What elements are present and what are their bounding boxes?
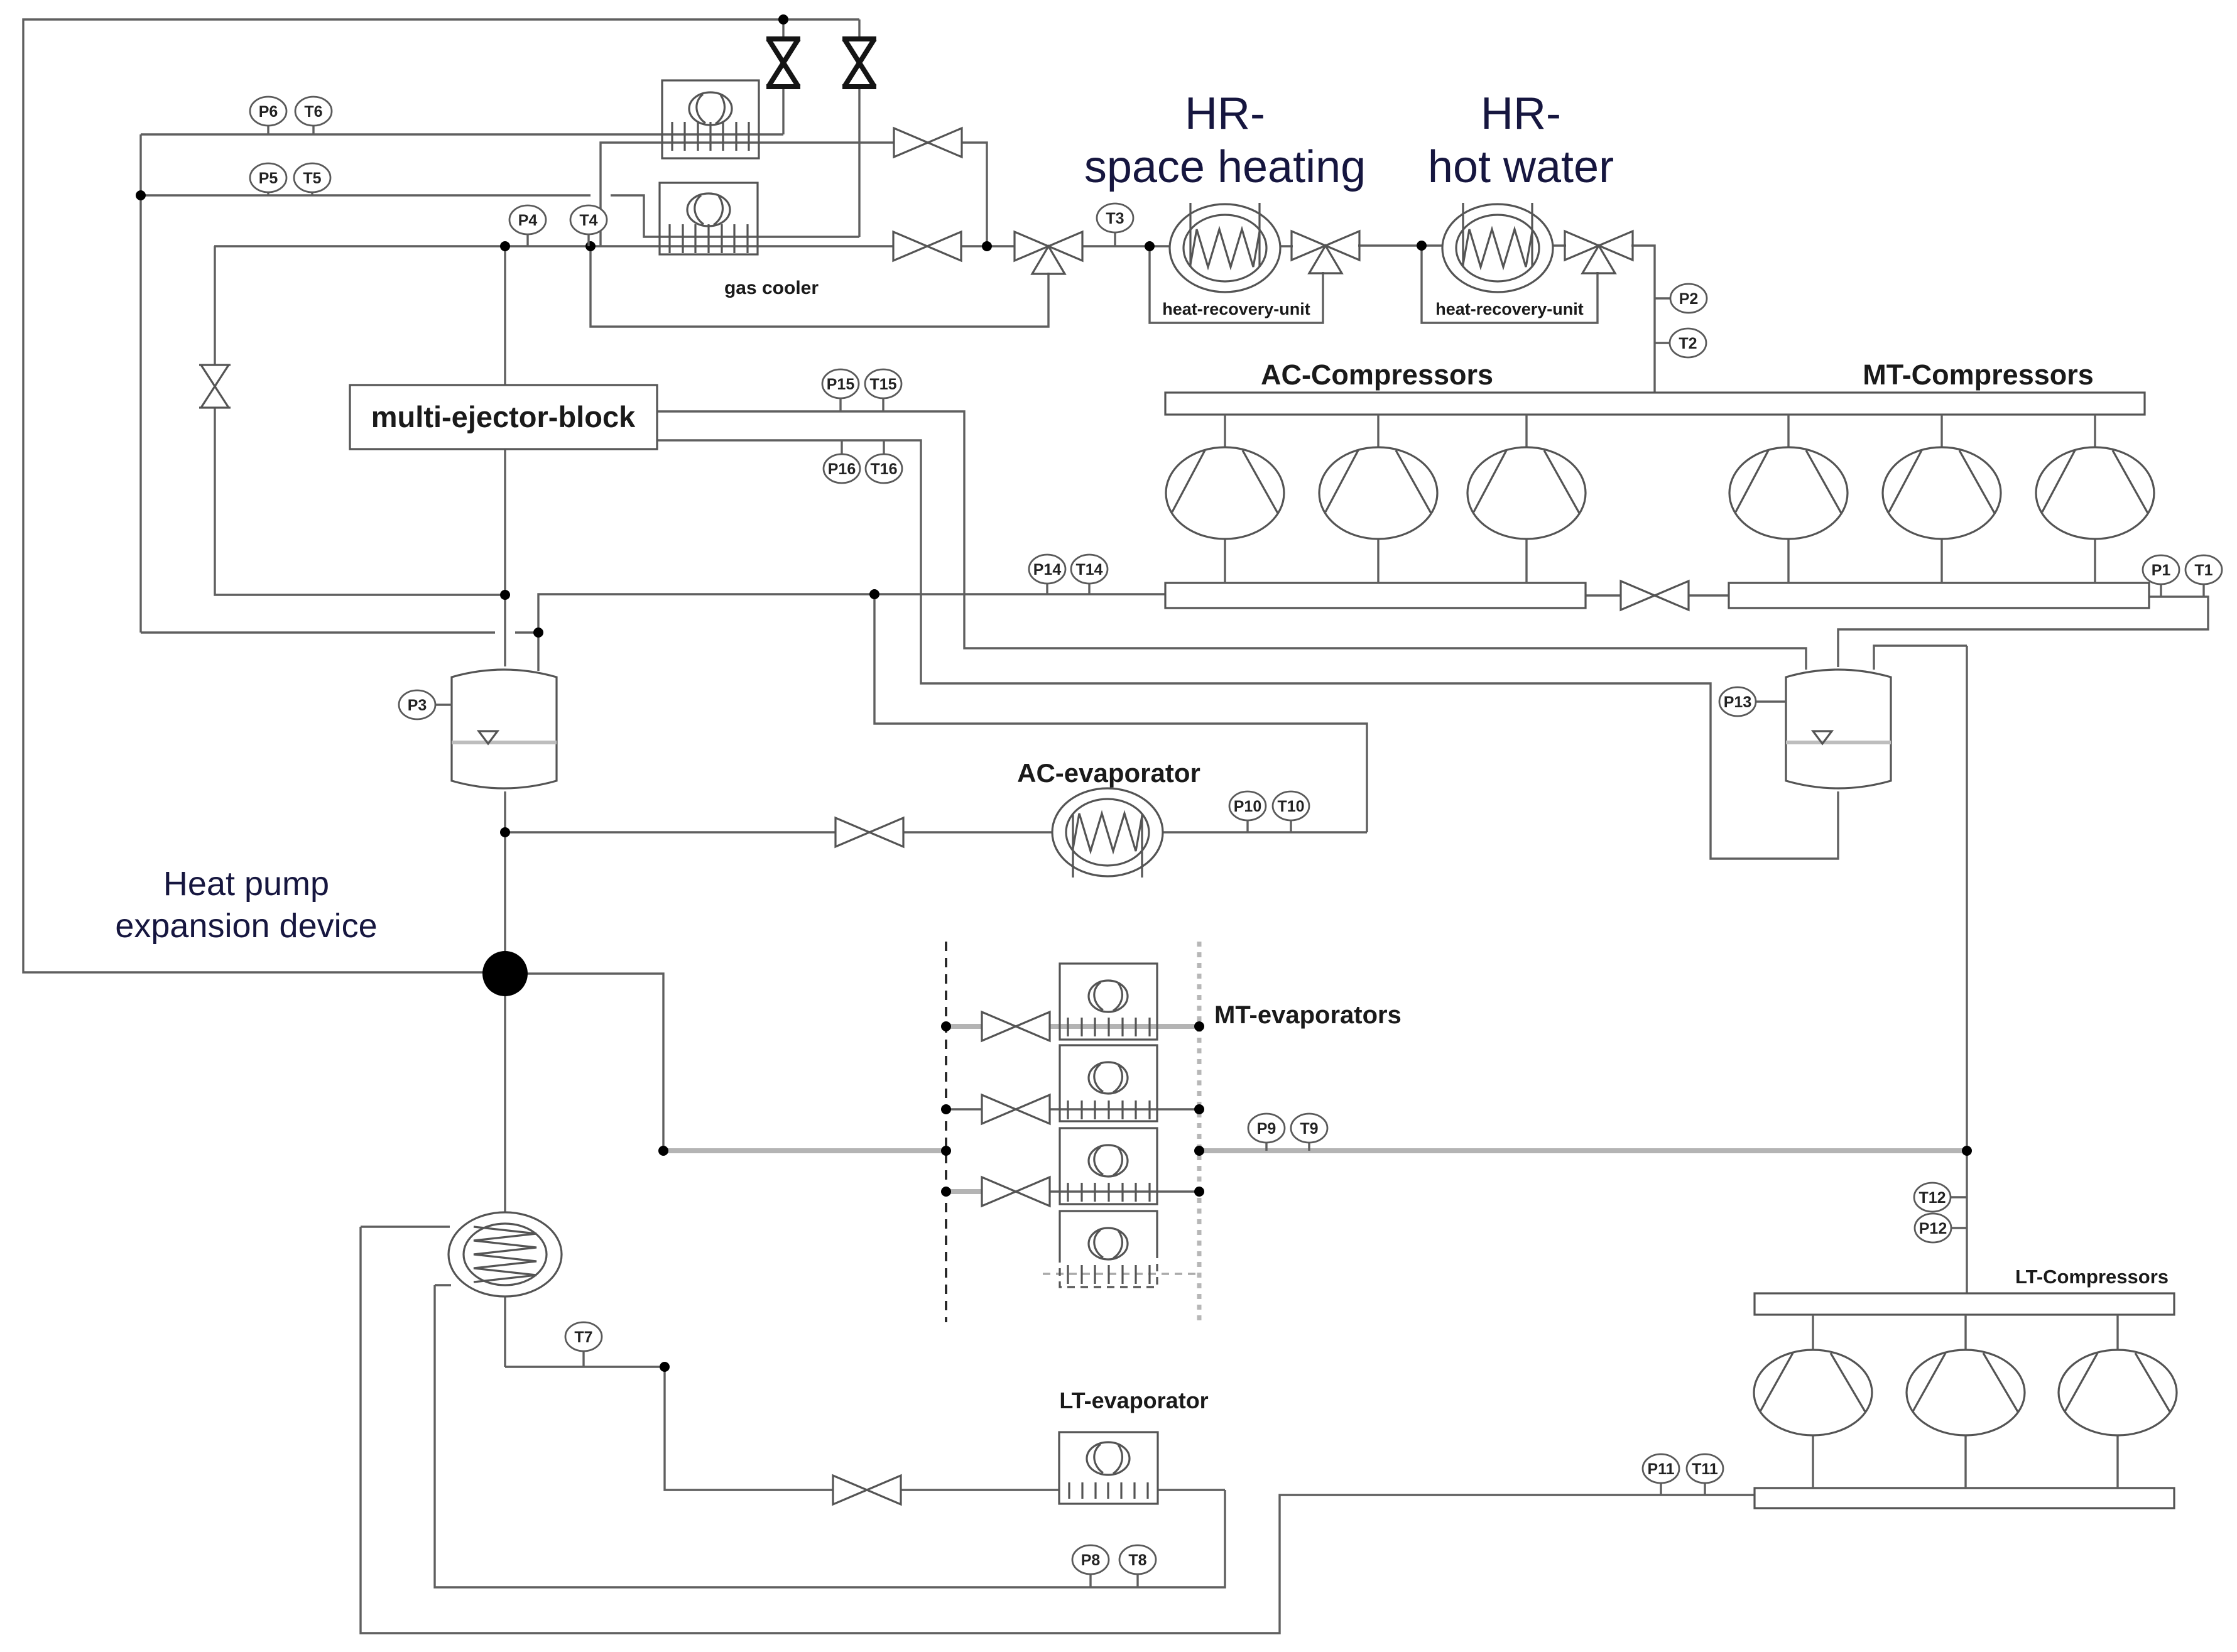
wire LT discharge / MT-evap suction vertical (T12/P12 line) — [1966, 646, 1968, 1293]
sensor T3 — [1097, 204, 1133, 246]
3-way valve 3 — [1565, 231, 1599, 260]
svg-text:P14: P14 — [1033, 561, 1062, 579]
wire MT-evap row4 dashed — [1043, 1273, 1199, 1274]
svg-text:T8: T8 — [1128, 1551, 1146, 1569]
svg-text:P11: P11 — [1647, 1460, 1674, 1478]
svg-text:P6: P6 — [259, 103, 278, 121]
LT compressor 3 — [2116, 1315, 2118, 1350]
junction dot (3131,1832) — [1962, 1146, 1972, 1156]
sensor T9 — [1291, 1114, 1327, 1151]
svg-text:T10: T10 — [1277, 798, 1304, 815]
wire ejector output 1 (P15/T15 line) to receiver2 top-left — [657, 411, 1806, 670]
junction dot (1571,392) — [982, 241, 992, 251]
wire 3way-3 to discharge header riser (P2/T2 line) — [1631, 246, 1655, 393]
svg-text:P2: P2 — [1679, 290, 1699, 308]
junction dot (1909,1832) — [1194, 1146, 1204, 1156]
wire HR1 loop — [1150, 246, 1323, 323]
AC compressor 1 — [1224, 415, 1226, 448]
svg-text:T14: T14 — [1075, 561, 1102, 579]
svg-text:hot water: hot water — [1428, 142, 1614, 192]
MT-evaporator box 1 — [1060, 964, 1157, 1040]
valve B (main line) — [893, 232, 927, 261]
svg-text:HR-: HR- — [1185, 89, 1265, 139]
wire main line valveB to 3way-1 — [961, 245, 1015, 247]
junction dot (224,311) — [136, 190, 146, 200]
MT compressor 2 — [1940, 415, 1942, 448]
MT compressor 1 — [1787, 415, 1789, 448]
sensor P13 — [1719, 687, 1786, 716]
3-way valve 1 — [1015, 232, 1048, 261]
wire MT-evap feed header (thick) — [663, 1148, 946, 1153]
valve top-2 (bold) — [842, 36, 876, 41]
valve A (gas cooler upper branch) — [894, 128, 928, 157]
sensor T6 — [295, 97, 332, 134]
svg-text:P4: P4 — [518, 212, 538, 229]
LT-evaporator feed valve — [833, 1475, 867, 1504]
wire expansion-valve branch — [214, 246, 215, 365]
MT-evaporator box 3 — [1060, 1128, 1157, 1204]
svg-text:AC-Compressors: AC-Compressors — [1261, 359, 1493, 391]
wire MT-evap row1 — [946, 1024, 982, 1029]
MT-evaporator valve 1 — [982, 1012, 1016, 1041]
wire node down to internal heat exchanger — [504, 994, 506, 1213]
svg-text:AC-evaporator: AC-evaporator — [1017, 758, 1200, 788]
sensor P8 — [1072, 1545, 1109, 1587]
svg-text:P5: P5 — [259, 170, 278, 187]
junction dot (804,1325) — [500, 827, 510, 837]
svg-text:T16: T16 — [870, 460, 897, 478]
svg-text:T9: T9 — [1300, 1120, 1318, 1138]
wire MT-evap outlet (P9/T9 line) — [1199, 1148, 1967, 1153]
wire HX left port — [361, 1225, 450, 1227]
multi-ejector-block — [350, 385, 657, 449]
svg-text:MT-evaporators: MT-evaporators — [1214, 1001, 1402, 1029]
junction dot (1392,946) — [869, 589, 879, 599]
sensor T8 — [1119, 1545, 1156, 1587]
junction dot (1909,1634) — [1194, 1021, 1204, 1031]
svg-text:space heating: space heating — [1084, 142, 1366, 192]
sensor T16 — [866, 440, 902, 483]
svg-text:T2: T2 — [1679, 335, 1697, 352]
manifold dashed line left (liquid) — [945, 942, 947, 1322]
junction dot (857,1007) — [533, 628, 543, 638]
LT compressor discharge rail — [1755, 1293, 2174, 1315]
svg-text:P15: P15 — [827, 376, 855, 393]
sensor P1 — [2143, 555, 2179, 597]
3-way valve 2 — [1292, 231, 1325, 260]
wire HX lower-left port — [435, 1284, 451, 1286]
svg-text:multi-ejector-block: multi-ejector-block — [371, 400, 636, 433]
junction dot (1058,2176) — [660, 1362, 670, 1372]
MT compressor 3 — [2094, 415, 2096, 448]
wire LT-evaporator feed — [665, 1367, 833, 1490]
junction dot (940,392) — [585, 241, 596, 251]
LT compressor 2 — [1964, 1315, 1966, 1350]
svg-text:P10: P10 — [1234, 798, 1261, 815]
wire receiver2 top-right inlet — [1874, 646, 1967, 670]
sensor T15 — [865, 369, 901, 411]
MT-evaporator box 2 — [1060, 1045, 1157, 1121]
wire AC-evaporator feed line — [505, 831, 835, 833]
wire 3way-1 bottom bypass — [591, 246, 1048, 327]
wire outer return loop to LT suction (P11/T11 line) — [361, 1227, 1755, 1633]
wire MT-evap row2 — [946, 1108, 982, 1110]
sensor P12 — [1915, 1214, 1967, 1242]
sensor P14 — [1029, 555, 1065, 594]
expansion valve (left) — [199, 364, 231, 366]
sensor T5 — [294, 163, 330, 195]
wire outer border loop to expansion node — [23, 19, 859, 972]
sensor P16 — [824, 440, 860, 483]
wire ejector output 2 (P16/T16 line) to receiver2 bottom — [657, 440, 1838, 859]
expansion node (heat pump expansion device) — [482, 951, 528, 996]
sensor P5 — [250, 163, 286, 195]
junction dot (1506,1766) — [941, 1104, 951, 1114]
AC-evaporator coil — [1052, 788, 1163, 878]
svg-text:T5: T5 — [303, 170, 321, 187]
svg-text:P9: P9 — [1257, 1120, 1276, 1138]
svg-text:LT-Compressors: LT-Compressors — [2015, 1266, 2169, 1288]
heat-recovery-unit 1 (HR space heating) — [1170, 203, 1280, 292]
junction dot (1909,1766) — [1194, 1104, 1204, 1114]
sensor T10 — [1273, 791, 1309, 832]
MT-evaporator valve 2 — [982, 1095, 1016, 1124]
heat-recovery-unit 2 (HR hot water) — [1442, 203, 1553, 292]
svg-text:P13: P13 — [1724, 693, 1751, 711]
wire receiver feed from left riser y=1007 (with hop) — [141, 631, 495, 633]
sensor T11 — [1687, 1454, 1723, 1495]
svg-text:T11: T11 — [1692, 1460, 1718, 1478]
suction bypass valve — [1621, 581, 1655, 610]
svg-text:P1: P1 — [2152, 562, 2171, 579]
sensor T7 — [565, 1322, 602, 1367]
wire gas-cooler bypass branch (valve A) — [601, 143, 894, 246]
sensor P3 — [399, 690, 452, 719]
MT suction rail — [1729, 583, 2149, 608]
junction dot (1247,31) — [778, 14, 788, 24]
junction dot (804,392) — [500, 241, 510, 251]
sensor T14 — [1071, 555, 1108, 594]
internal heat exchanger — [449, 1212, 562, 1296]
sensor T12 — [1914, 1183, 1967, 1212]
wire gas-cooler box1 coil line (P6/T6 line) — [141, 133, 783, 135]
svg-text:T12: T12 — [1919, 1189, 1946, 1207]
wire receiver1 bottom outlet to node — [504, 791, 506, 954]
wire AC/MT suction rail interconnect — [1586, 594, 1621, 596]
wire HR1 to 3way-2 — [1279, 245, 1293, 247]
manifold dotted line right (suction) — [1197, 942, 1202, 1322]
junction dot (1506,1634) — [941, 1021, 951, 1031]
wire ejector feed vertical (through block) — [504, 246, 506, 385]
sensor P9 — [1248, 1114, 1285, 1151]
svg-text:T1: T1 — [2194, 562, 2213, 579]
junction dot (1056,1832) — [658, 1146, 668, 1156]
svg-text:T6: T6 — [304, 103, 322, 121]
svg-text:T3: T3 — [1106, 210, 1124, 227]
svg-text:Heat pump: Heat pump — [163, 865, 329, 903]
wire node to MT-evap feed — [525, 974, 663, 1151]
AC suction rail — [1165, 583, 1586, 608]
junction dot (804,947) — [500, 590, 510, 600]
wire MT suction to receiver2 top (P1/T1 line) — [1838, 597, 2208, 667]
sensor P2 — [1655, 284, 1707, 313]
receiver 1 (P3) — [452, 670, 557, 788]
sensor T1 — [2185, 555, 2222, 597]
svg-text:gas cooler: gas cooler — [724, 278, 819, 298]
svg-text:expansion device: expansion device — [115, 907, 377, 945]
svg-text:T15: T15 — [869, 376, 896, 393]
sensor P11 — [1643, 1454, 1679, 1495]
junction dot (1506,1897) — [941, 1187, 951, 1197]
wire MT-evap row3 — [946, 1189, 982, 1194]
wire riser valve top-1 — [782, 19, 784, 40]
LT compressor 1 — [1812, 1315, 1814, 1350]
svg-text:heat-recovery-unit: heat-recovery-unit — [1162, 300, 1310, 318]
svg-text:T7: T7 — [574, 1329, 592, 1346]
svg-text:P16: P16 — [828, 460, 856, 478]
compressor discharge header rail — [1165, 393, 2145, 415]
svg-text:P3: P3 — [408, 697, 427, 714]
wire riser valve top-2 — [858, 19, 860, 40]
sensor T4 — [570, 205, 607, 246]
svg-text:P12: P12 — [1919, 1220, 1947, 1237]
wire main high-pressure line (P4/T4 line) — [214, 245, 894, 247]
wire 3way-1 to HR1 (T3 segment) — [1082, 245, 1170, 247]
svg-text:heat-recovery-unit: heat-recovery-unit — [1435, 300, 1584, 318]
wire AC-evaporator return riser — [874, 594, 1367, 832]
svg-text:MT-Compressors: MT-Compressors — [1863, 359, 2094, 391]
AC compressor 3 — [1525, 415, 1527, 448]
AC-evaporator feed valve — [835, 818, 869, 847]
gas cooler fan box 2 — [660, 183, 758, 254]
junction dot (2263,391) — [1417, 241, 1427, 251]
LT suction rail — [1755, 1488, 2174, 1508]
wire HR2 loop — [1422, 246, 1597, 323]
junction dot (1506,1832) — [941, 1146, 951, 1156]
valve top-1 (bold) — [766, 36, 800, 41]
svg-text:LT-evaporator: LT-evaporator — [1059, 1388, 1208, 1413]
LT-evaporator box — [1059, 1432, 1158, 1504]
sensor P4 — [509, 205, 546, 246]
sensor P6 — [250, 97, 286, 134]
MT-evaporator valve 3 — [982, 1177, 1016, 1206]
receiver 2 (P13) — [1786, 670, 1891, 788]
wire receiver1 flash-gas to AC suction (P14/T14 line) — [538, 594, 1165, 671]
wire inner return loop (P8/T8 line) — [435, 1285, 1225, 1587]
wire HR2 to 3way-3 — [1550, 244, 1566, 246]
junction dot (1909,1897) — [1194, 1187, 1204, 1197]
MT-evaporator box 4 (dashed future) — [1060, 1211, 1157, 1255]
sensor P15 — [822, 369, 859, 411]
AC compressor 2 — [1377, 415, 1379, 448]
svg-text:HR-: HR- — [1481, 89, 1561, 139]
junction dot (1830,392) — [1145, 241, 1155, 251]
svg-text:P8: P8 — [1081, 1551, 1101, 1569]
sensor P10 — [1229, 791, 1266, 832]
gas cooler fan box 1 — [662, 80, 759, 158]
wire HX bottom to T7 line — [504, 1296, 506, 1367]
wire 3way-2 to HR2 — [1358, 244, 1442, 246]
wire gas-cooler box2 feed (P5/T5 line, with hop) — [141, 194, 591, 196]
wire left riser x=224 — [139, 134, 141, 633]
sensor T2 — [1655, 329, 1706, 357]
svg-text:T4: T4 — [579, 212, 597, 229]
